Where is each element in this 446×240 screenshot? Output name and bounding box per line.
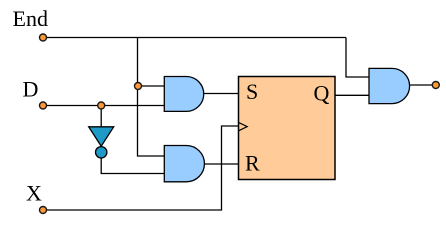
node D junction: [98, 102, 105, 109]
wire U2 output to R input: [205, 163, 239, 165]
SR flip-flop U5: [239, 77, 336, 180]
wire Q output to U3 bottom input: [335, 94, 369, 96]
wire D junction down to inverter: [100, 106, 102, 128]
svg-text:R: R: [245, 151, 260, 176]
wire inverter output to U2 bottom input: [101, 158, 164, 174]
wire U1 output to S input: [204, 93, 238, 95]
node D: [40, 102, 47, 109]
svg-text:S: S: [246, 79, 258, 104]
wire X horizontal and up to clock: [43, 126, 238, 210]
wire End right drop to gate U3 top input: [346, 38, 369, 78]
wire End branch vertical: [138, 38, 165, 157]
AND gate U3 (right): [369, 68, 410, 103]
wire D horizontal to U1 bottom input: [43, 105, 164, 107]
inverter U4 bubble: [96, 147, 107, 158]
wire U3 output to node: [410, 84, 433, 86]
svg-text:D: D: [23, 77, 39, 102]
node End junction: [135, 83, 142, 90]
AND gate U1 (top): [164, 77, 203, 112]
node X: [40, 207, 47, 214]
node output: [432, 82, 439, 89]
inverter U4 triangle: [89, 127, 114, 146]
wire junction to U1 top input: [138, 85, 165, 87]
AND gate U2 (lower): [164, 146, 204, 182]
wire End horizontal: [43, 37, 346, 39]
node End: [40, 34, 47, 41]
clock caret: [239, 123, 247, 131]
svg-text:Q: Q: [314, 81, 330, 106]
svg-text:End: End: [13, 6, 48, 31]
svg-text:X: X: [26, 181, 42, 206]
